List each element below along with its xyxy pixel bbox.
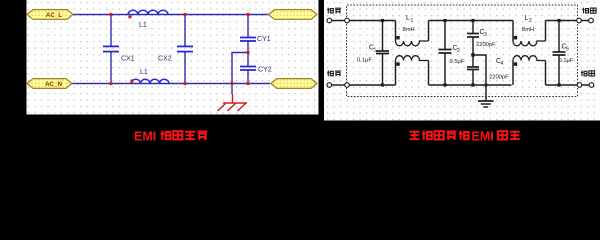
svg-text:CY1: CY1 xyxy=(257,36,271,43)
svg-text:1: 1 xyxy=(374,48,377,54)
svg-text:0.1μF: 0.1μF xyxy=(559,58,574,64)
svg-text:8mH: 8mH xyxy=(403,27,415,33)
svg-text:2200pF: 2200pF xyxy=(489,75,509,81)
svg-text:AC_N: AC_N xyxy=(45,81,62,88)
svg-text:0.5μF: 0.5μF xyxy=(450,59,465,65)
svg-text:2200pF: 2200pF xyxy=(476,42,496,48)
svg-text:5: 5 xyxy=(566,47,569,53)
svg-text:L: L xyxy=(525,15,529,22)
svg-text:3: 3 xyxy=(484,32,487,38)
svg-text:L: L xyxy=(406,15,410,22)
svg-text:CX2: CX2 xyxy=(158,56,172,63)
svg-text:EMI: EMI xyxy=(134,129,156,143)
svg-text:4: 4 xyxy=(501,61,504,67)
svg-text:EMI: EMI xyxy=(472,129,494,143)
svg-text:2: 2 xyxy=(457,48,460,54)
svg-text:AC_L: AC_L xyxy=(46,12,62,19)
svg-text:CY2: CY2 xyxy=(258,67,272,74)
svg-text:CX1: CX1 xyxy=(121,56,135,63)
svg-text:2: 2 xyxy=(529,18,532,24)
svg-text:L1: L1 xyxy=(140,69,148,76)
svg-text:8mH: 8mH xyxy=(522,27,534,33)
svg-text:L1: L1 xyxy=(139,22,147,29)
svg-text:1: 1 xyxy=(411,18,414,24)
svg-text:0.1μF: 0.1μF xyxy=(357,58,372,64)
